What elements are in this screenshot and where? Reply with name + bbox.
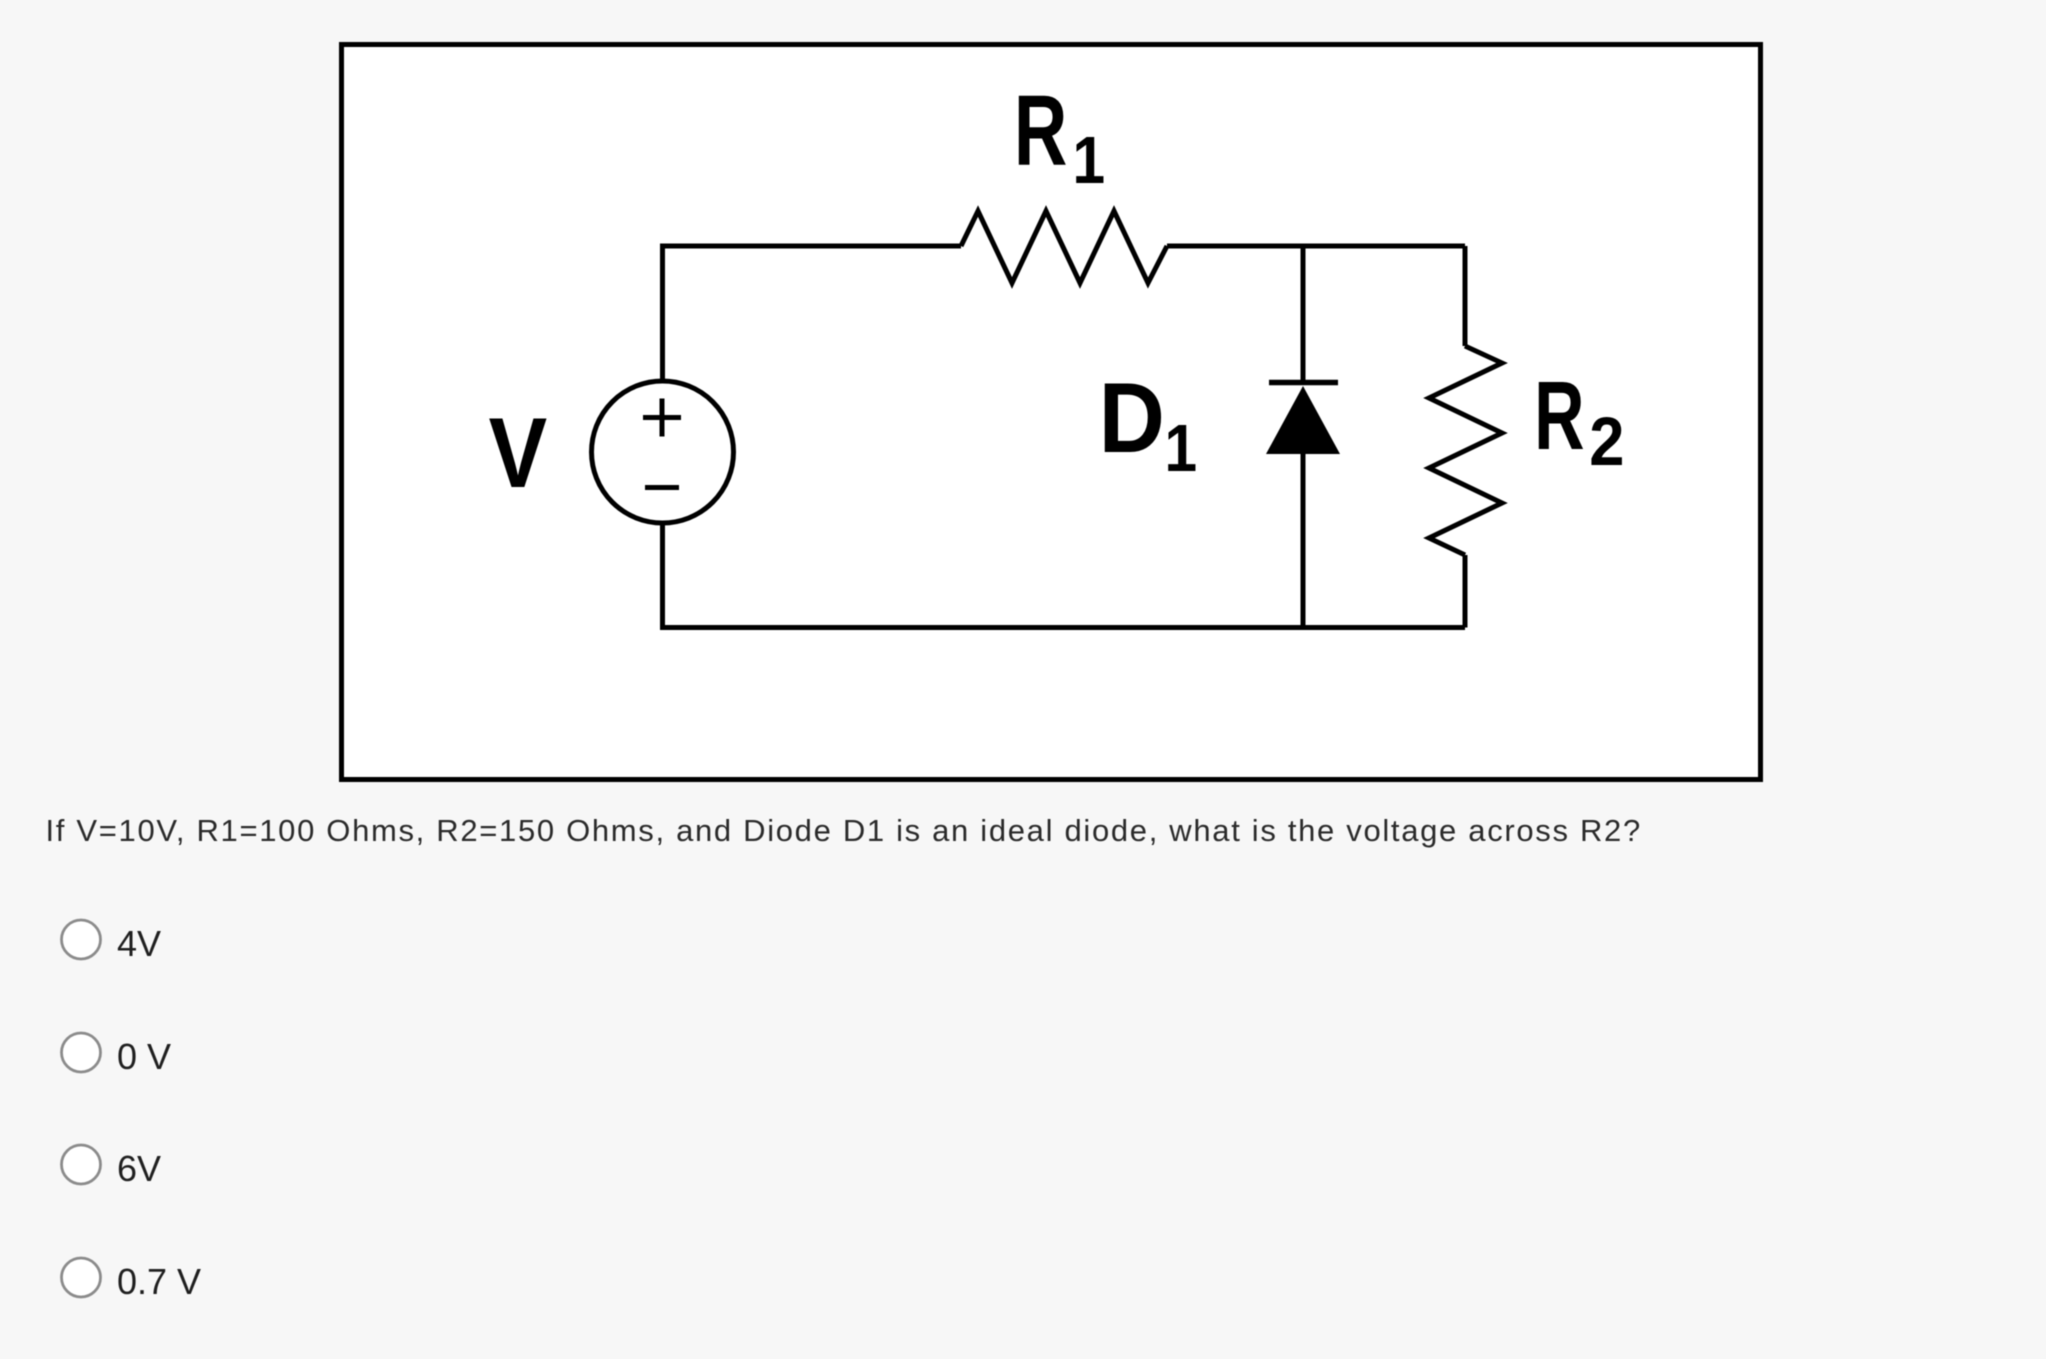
wire: R2 branch top vertical — [1463, 246, 1468, 346]
svg-text:V: V — [489, 397, 547, 508]
enclosing schematic frame — [342, 45, 1761, 780]
wire: R2 branch bottom vertical — [1463, 555, 1468, 628]
radio option 2 — [62, 1033, 101, 1072]
voltage source V circle — [592, 381, 734, 523]
svg-text:0 V: 0 V — [117, 1036, 171, 1077]
wire: source bottom — [663, 523, 1466, 628]
wire: R1 right to R2 branch top — [1167, 244, 1465, 249]
svg-text:1: 1 — [1073, 123, 1106, 198]
svg-text:R: R — [1534, 360, 1584, 469]
svg-text:2: 2 — [1589, 403, 1624, 480]
svg-text:D: D — [1099, 364, 1165, 474]
wire: top-left loop (source top to R1 left) — [663, 246, 962, 381]
resistor R1 zigzag — [961, 211, 1167, 283]
wire: diode branch vertical — [1301, 246, 1306, 628]
svg-text:R: R — [1014, 73, 1067, 186]
plus sign — [643, 399, 681, 437]
svg-text:0.7 V: 0.7 V — [117, 1261, 201, 1302]
radio option 3 — [62, 1145, 101, 1184]
minus sign — [645, 485, 679, 490]
diode D1 triangle — [1266, 386, 1340, 454]
radio option 4 — [62, 1258, 101, 1297]
diode D1 cathode bar — [1269, 380, 1338, 386]
radio option 1 — [62, 920, 101, 959]
svg-text:If V=10V, R1=100 Ohms, R2=150: If V=10V, R1=100 Ohms, R2=150 Ohms, and … — [46, 813, 1642, 848]
resistor R2 zigzag — [1429, 346, 1502, 555]
svg-text:4V: 4V — [117, 923, 161, 964]
svg-text:1: 1 — [1165, 411, 1198, 486]
svg-text:6V: 6V — [117, 1148, 161, 1189]
